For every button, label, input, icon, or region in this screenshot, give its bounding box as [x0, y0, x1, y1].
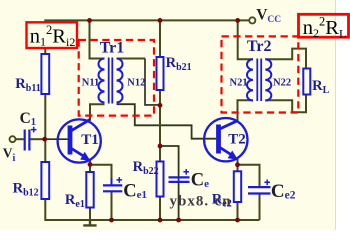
node dot T2 emitter	[235, 162, 240, 167]
transformer winding N12	[117, 59, 123, 103]
wire: T2 emitter to Re2	[237, 159, 239, 171]
transformer Tr2 core	[257, 59, 261, 102]
resistor RL	[303, 69, 310, 95]
wire: Ce branch	[160, 146, 179, 220]
wire: Rb22 bottom to bus	[159, 197, 161, 221]
wire: left column upper (Rb11 to base node)	[44, 94, 46, 162]
wire: N21 bottom lead to T2 collector	[238, 100, 254, 121]
svg-text:Tr2: Tr2	[247, 38, 272, 55]
wire: node A down to Ce node and Rb22	[159, 105, 161, 161]
dashed box Tr2	[222, 36, 299, 112]
wire: input to C1	[16, 138, 24, 140]
capacitor Ce	[169, 177, 190, 182]
wire: T1 base	[45, 138, 68, 140]
capacitor C1	[25, 130, 30, 151]
transistor T1	[58, 119, 101, 162]
wire: N12 top feed down to bias node	[145, 59, 158, 105]
svg-text:N22: N22	[273, 77, 291, 88]
node dot bus-Rb22	[158, 218, 163, 223]
svg-text:T1: T1	[81, 132, 99, 148]
wire: N12 bottom lead with step	[117, 104, 217, 139]
node dot B (Ce branch)	[158, 144, 163, 149]
svg-text:T2: T2	[228, 131, 246, 147]
svg-text:Tr1: Tr1	[100, 40, 125, 57]
node dot A (Rb21/N12)	[158, 103, 163, 108]
resistor Rb22	[157, 162, 164, 197]
svg-text:ybx8.cn: ybx8.cn	[170, 194, 232, 210]
wire: Re2 bottom to bus	[237, 202, 239, 220]
wire: N22 bottom lead to RL bottom	[265, 95, 306, 113]
svg-text:N12: N12	[127, 78, 145, 89]
wire: Tr2 N21 top drop from bus	[238, 20, 253, 59]
wire: N11 bottom lead to T1 collector	[90, 104, 105, 120]
capacitor Ce1	[103, 178, 122, 191]
node dot bus-N11	[87, 18, 92, 23]
transformer winding N11	[99, 59, 105, 103]
transformer winding N22	[265, 59, 271, 100]
transformer winding N21	[247, 59, 253, 100]
plus sign Ce	[183, 169, 189, 175]
input terminal	[10, 136, 16, 142]
svg-text:n22RL: n22RL	[303, 14, 347, 40]
wire: N22 top lead to RL	[265, 49, 306, 69]
wire: N12 top lead	[117, 58, 146, 60]
wire: C1 to base node	[31, 138, 45, 140]
svg-text:N21: N21	[230, 77, 248, 88]
transistor T2	[204, 118, 247, 161]
node dot bus-Tr2	[235, 18, 240, 23]
wire: emitter branch to Ce2	[238, 165, 260, 220]
resistor Rb11	[41, 54, 49, 94]
label box n1^2 Ri2	[27, 22, 78, 48]
wire: N11 top lead and drop from bus	[90, 20, 105, 58]
wire: emitter branch to Ce1	[90, 165, 112, 220]
resistor Rb12	[41, 162, 49, 199]
node dot bus-Ce1	[109, 218, 114, 223]
dashed box Tr1	[79, 40, 154, 116]
wire: Re1 bottom to ground	[89, 208, 91, 221]
plus sign Ce2	[264, 180, 270, 186]
node dot bus-Re2	[235, 218, 240, 223]
wire: top VCC bus	[45, 20, 249, 58]
node dot base T1	[42, 137, 47, 142]
plus sign Ce1	[117, 177, 123, 183]
transformer Tr1 core	[109, 58, 113, 104]
wire: Rb21 bottom to node A	[159, 90, 161, 105]
plus sign C1	[31, 127, 37, 133]
node dot bus-Ce	[176, 218, 181, 223]
ground	[83, 220, 96, 225]
wire: left column lower (Rb12 to bottom bus)	[45, 199, 259, 220]
wire: T1 emitter to Re1 and Ce1 branch	[89, 160, 91, 172]
resistor Rb21	[157, 57, 164, 90]
cream/white boundary	[335, 0, 337, 230]
VCC terminal	[249, 17, 255, 23]
node dot T1 emitter	[88, 162, 93, 167]
label box n2^2 RL	[299, 14, 349, 37]
resistor Re1	[86, 172, 93, 208]
wire: Rb21 column from bus to node	[159, 20, 161, 57]
capacitor Ce2	[248, 187, 271, 193]
resistor Re2	[234, 171, 241, 202]
node dot bus-Rb21	[158, 18, 163, 23]
svg-text:N11: N11	[82, 78, 100, 89]
